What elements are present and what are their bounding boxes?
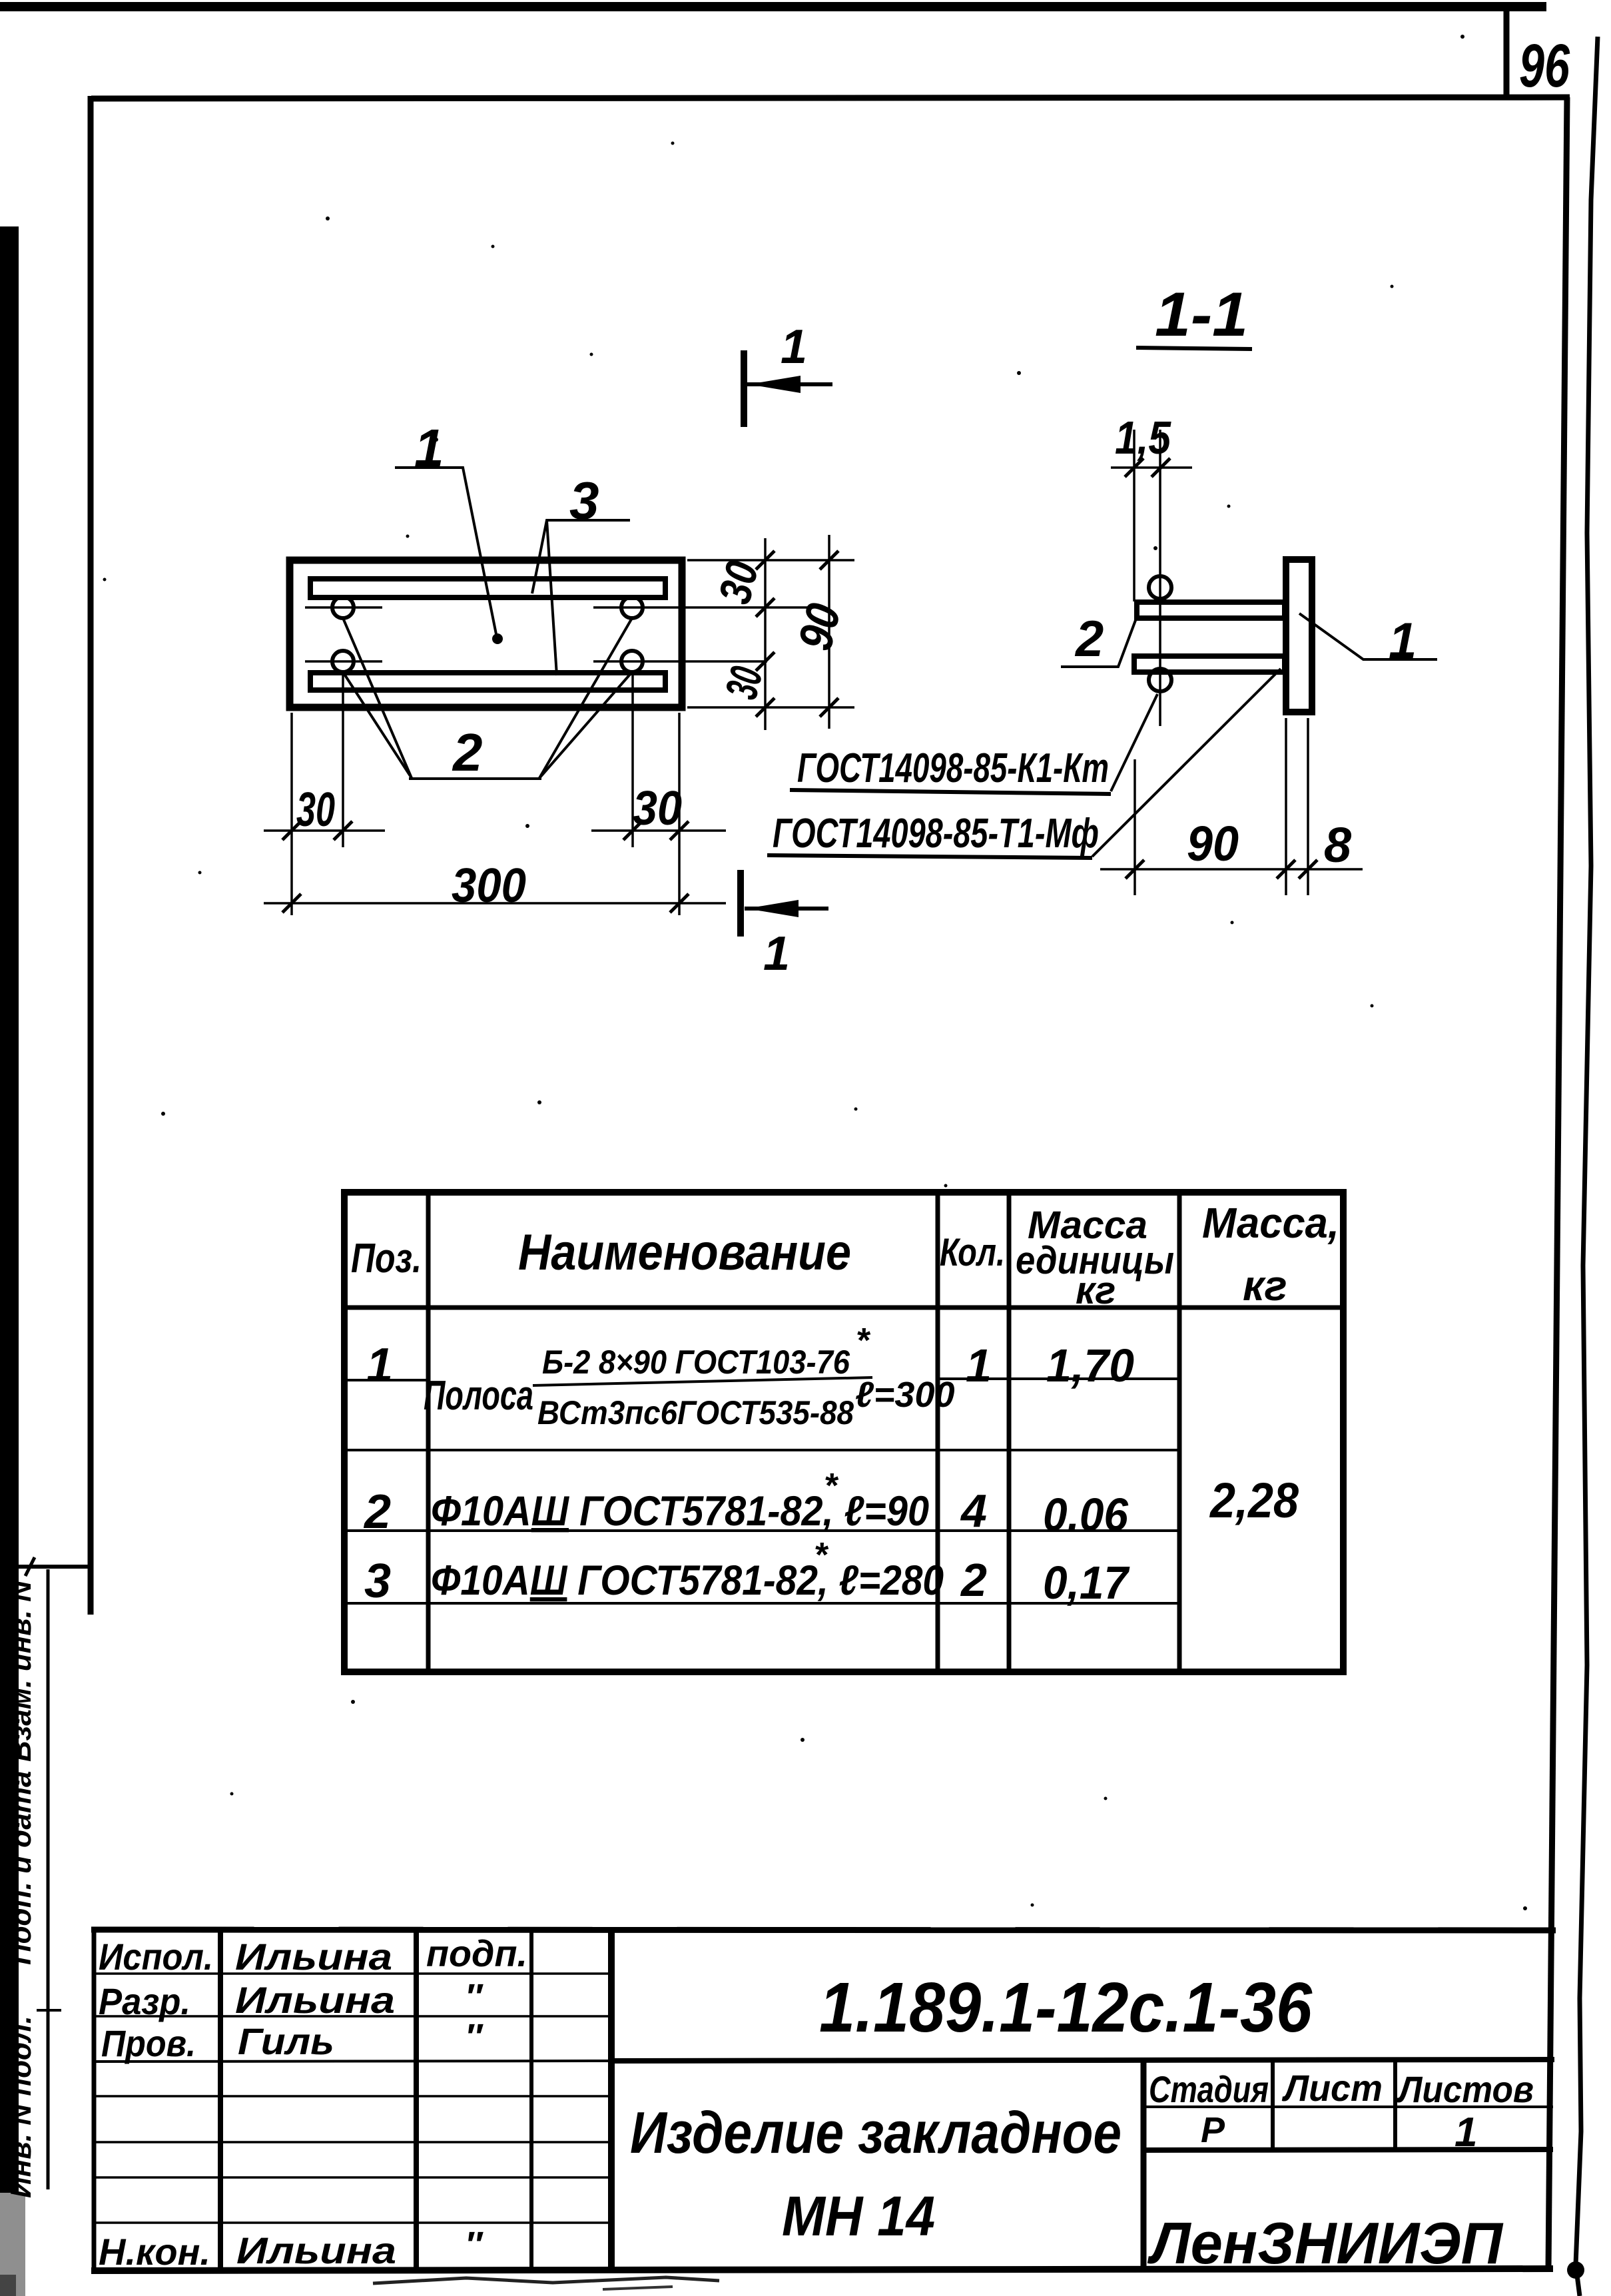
title block top border: [91, 1930, 1556, 1930]
svg-text:Н.кон.: Н.кон.: [99, 2231, 210, 2273]
svg-text:*: *: [814, 1536, 829, 1575]
svg-text:8: 8: [1324, 817, 1352, 873]
svg-text:Кол.: Кол.: [940, 1231, 1005, 1274]
axis/extension line row2 right: [593, 660, 767, 663]
dim 90 / 8 (section): [1133, 759, 1136, 895]
extension line top-right of plate: [687, 559, 854, 562]
bottom smudge: [373, 2277, 719, 2283]
rebar pos3 bottom (plan): [310, 673, 665, 690]
axis line row2 left: [305, 660, 382, 663]
svg-text:Ф10АШ ГОСТ5781-82, ℓ=280: Ф10АШ ГОСТ5781-82, ℓ=280: [431, 1557, 944, 1604]
svg-text:Испол.: Испол.: [99, 1936, 213, 1978]
pos2 anchor top (section): [1137, 602, 1285, 618]
svg-text:*: *: [856, 1322, 871, 1360]
scan left bottom gray bar: [0, 2193, 25, 2296]
svg-text:1: 1: [781, 320, 807, 374]
scan noise dots: [103, 35, 1528, 1910]
svg-text:″: ″: [465, 1977, 483, 2017]
svg-text:Изделие закладное: Изделие закладное: [630, 2100, 1122, 2165]
svg-text:ЛенЗНИИЭП: ЛенЗНИИЭП: [1147, 2210, 1504, 2276]
svg-text:1: 1: [966, 1339, 992, 1391]
left rows: [94, 1972, 611, 1975]
table outer frame: [344, 1192, 1343, 1672]
svg-text:1,5: 1,5: [1115, 412, 1171, 464]
table row line r3: [344, 1602, 1179, 1605]
vertical x331: [218, 1930, 223, 2270]
svg-text:подп.: подп.: [426, 1932, 527, 1974]
axis/extension line row1 right: [593, 606, 810, 609]
svg-text:Ильина: Ильина: [235, 1979, 395, 2021]
svg-text:Листов: Листов: [1396, 2068, 1534, 2110]
svg-text:Масса,: Масса,: [1202, 1199, 1339, 1247]
svg-text:2: 2: [363, 1485, 391, 1539]
svg-text:30: 30: [633, 782, 682, 835]
svg-text:Полоса: Полоса: [424, 1373, 533, 1419]
table header underline: [344, 1306, 1343, 1310]
svg-text:1.189.1-12с.1-36: 1.189.1-12с.1-36: [819, 1968, 1313, 2047]
svg-text:ВСт3пс6ГОСТ535-88: ВСт3пс6ГОСТ535-88: [537, 1394, 854, 1431]
table row line r2: [344, 1529, 1179, 1532]
table column line Massa-ed: [1007, 1192, 1012, 1672]
scan left black bar: [0, 226, 19, 2193]
dim line 300: [264, 902, 726, 905]
svg-text:90: 90: [1187, 816, 1239, 871]
axis line row1 left: [305, 606, 382, 609]
svg-text:3: 3: [569, 471, 599, 530]
svg-text:2,28: 2,28: [1209, 1473, 1299, 1528]
svg-text:Поз.: Поз.: [351, 1236, 422, 1282]
label 3 (plan) leader: [532, 520, 630, 593]
svg-text:Взам. инв. N: Взам. инв. N: [5, 1580, 37, 1762]
anchor pos2 circle top-left: [332, 597, 354, 618]
svg-text:Инв. N подл.: Инв. N подл.: [5, 2016, 37, 2198]
plate pos1 (section): [1286, 560, 1312, 712]
leader pos2 from bottom-right circle: [539, 672, 632, 778]
svg-text:Гиль: Гиль: [238, 2020, 334, 2062]
extension line bottom-right of plate: [687, 706, 854, 709]
margin bracket horizontal: [17, 1565, 91, 1569]
doc number cell bottom (thick across): [94, 2061, 611, 2062]
vertical x798: [529, 1930, 533, 2270]
svg-text:4: 4: [960, 1485, 987, 1537]
table column line Kol: [936, 1192, 940, 1672]
frame right border: [1548, 97, 1567, 2270]
svg-text:кг: кг: [1243, 1262, 1287, 1310]
extension line A: [1133, 430, 1135, 601]
dim vertical line 90: [828, 535, 830, 729]
svg-text:Наименование: Наименование: [518, 1224, 851, 1281]
svg-text:3: 3: [364, 1555, 391, 1608]
svg-text:″: ″: [465, 2017, 483, 2057]
anchor pos2 circle bottom-right: [621, 651, 643, 672]
svg-text:МН 14: МН 14: [782, 2185, 935, 2247]
svg-text:96: 96: [1519, 32, 1570, 100]
svg-text:ГОСТ14098-85-К1-Кт: ГОСТ14098-85-К1-Кт: [797, 745, 1109, 791]
anchor pos2 circle top-right: [621, 597, 643, 618]
frame left border: [88, 96, 94, 1615]
vertical x625: [414, 1930, 419, 2270]
svg-text:Ф10АШ ГОСТ5781-82, ℓ=90: Ф10АШ ГОСТ5781-82, ℓ=90: [431, 1488, 929, 1535]
rebar pos3 top (plan): [310, 579, 665, 597]
extension line B: [1159, 430, 1161, 726]
leader pos2 from top-right circle: [539, 618, 632, 778]
vertical x918 thick: [608, 1930, 615, 2270]
svg-text:Подп. и дата: Подп. и дата: [5, 1771, 37, 1965]
svg-text:2: 2: [452, 723, 483, 782]
title block bottom border: [91, 2269, 1553, 2271]
svg-text:0,17: 0,17: [1043, 1557, 1130, 1609]
svg-text:2: 2: [1074, 611, 1104, 667]
leader pos2 from top-left circle: [343, 618, 412, 778]
svg-text:Пров.: Пров.: [101, 2022, 196, 2064]
svg-text:Стадия: Стадия: [1149, 2068, 1269, 2110]
svg-text:ℓ=300: ℓ=300: [855, 1375, 955, 1415]
label 1 (plan) leader: [395, 468, 497, 637]
extension vertical x515: [342, 674, 344, 847]
svg-text:*: *: [824, 1467, 839, 1505]
leader pos2 base line: [409, 777, 541, 780]
leader pos2 from bottom-left circle: [343, 672, 412, 778]
svg-text:1: 1: [414, 418, 444, 478]
svg-text:″: ″: [465, 2225, 483, 2265]
pos3 circle bottom (section): [1149, 669, 1171, 691]
svg-text:кг: кг: [1076, 1269, 1116, 1312]
dim vertical line 30/30: [764, 538, 767, 730]
plate pos1 outline (plan): [290, 560, 682, 707]
ticks bottom dims: [282, 821, 301, 840]
dim line 30 bottom-left: [264, 829, 385, 832]
extension vertical x438: [290, 713, 293, 915]
extension vertical x1020: [678, 713, 681, 915]
table row line r1a: [344, 1379, 428, 1381]
ticks right dims: [756, 551, 775, 570]
table column line Massa-kg: [1177, 1192, 1182, 1672]
svg-text:ГОСТ14098-85-Т1-Мф: ГОСТ14098-85-Т1-Мф: [773, 811, 1099, 857]
svg-text:1: 1: [1389, 613, 1417, 669]
svg-text:1-1: 1-1: [1155, 279, 1248, 349]
svg-text:Р: Р: [1201, 2110, 1225, 2150]
svg-text:30: 30: [296, 783, 335, 837]
pos2 anchor bottom (section): [1134, 656, 1285, 672]
scan right edge squiggle: [1576, 37, 1598, 2296]
title block left edge: [92, 1930, 97, 2271]
svg-text:1: 1: [366, 1339, 393, 1392]
frame top border: [91, 97, 1570, 99]
svg-text:0.06: 0.06: [1043, 1489, 1129, 1541]
pos3 circle top (section): [1149, 576, 1171, 599]
anchor pos2 circle bottom-left: [332, 651, 354, 672]
section cut mark top: [741, 350, 747, 427]
svg-text:Б-2 8×90 ГОСТ103-76: Б-2 8×90 ГОСТ103-76: [542, 1343, 850, 1381]
svg-text:Лист: Лист: [1281, 2067, 1383, 2109]
svg-text:1: 1: [763, 927, 790, 980]
svg-text:1: 1: [1454, 2109, 1477, 2155]
svg-text:1,70: 1,70: [1046, 1339, 1134, 1391]
table row line r1b: [344, 1449, 1179, 1451]
section cut mark bottom: [737, 870, 744, 937]
svg-text:2: 2: [960, 1554, 987, 1606]
svg-text:Разр.: Разр.: [99, 1980, 190, 2022]
svg-text:Ильина: Ильина: [235, 1936, 392, 1978]
extension vertical x950: [631, 674, 634, 847]
margin vertical line: [47, 1569, 50, 2189]
dim line 30 bottom-right: [591, 829, 726, 832]
svg-text:Ильина: Ильина: [236, 2229, 396, 2271]
page number box divider: [1504, 7, 1510, 100]
scan top black strip: [0, 2, 1546, 11]
table column line Poz: [426, 1192, 431, 1672]
svg-text:300: 300: [452, 859, 526, 913]
stadiya table: [1141, 2060, 1147, 2269]
